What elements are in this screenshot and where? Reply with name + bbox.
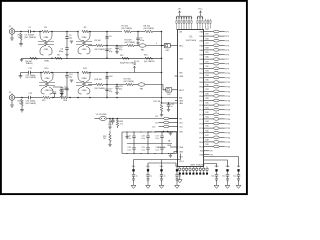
svg-text:OPA2: OPA2	[82, 36, 87, 39]
svg-text:PC3: PC3	[199, 119, 203, 121]
wire C5 to C6	[66, 38, 68, 47]
ground under R1	[19, 44, 23, 46]
resistor R46 47	[213, 131, 219, 134]
wire pin PA1 to R25	[204, 35, 214, 37]
wire grid left entry	[155, 131, 178, 133]
wire vertical filter leg row2	[106, 73, 108, 98]
svg-text:PA3: PA3	[200, 44, 203, 47]
wire rail to VDL pad	[133, 160, 135, 170]
svg-text:R27: R27	[206, 43, 209, 45]
resistor R8 NC TRACE	[145, 30, 153, 32]
node B5	[89, 72, 91, 74]
wire Y1 to U1 XTAL	[107, 118, 178, 120]
wire R32 to test point	[219, 67, 225, 69]
test pad VBL	[176, 169, 178, 171]
wire FB1 to CN1	[146, 45, 164, 47]
wire to C14	[66, 73, 68, 76]
wire R27 to test point	[219, 44, 225, 46]
svg-text:PB3: PB3	[199, 82, 203, 84]
capacitor C32 10uF	[215, 175, 218, 177]
node A2	[33, 31, 35, 33]
test pad VGL	[160, 169, 162, 171]
resistor R19	[43, 96, 50, 98]
svg-text:4.7u: 4.7u	[120, 124, 124, 126]
node bus row3	[161, 97, 163, 99]
node grid entry 1	[163, 131, 165, 133]
series resistor column right 3	[210, 19, 211, 29]
svg-text:PB1: PB1	[199, 73, 203, 75]
jumper CN2	[166, 88, 172, 93]
wire R26 to test point	[219, 40, 225, 42]
capacitor C15	[65, 88, 68, 90]
ground under C38	[175, 184, 180, 189]
resistor R21 10k	[160, 105, 162, 112]
bottom pin 6 of U1	[196, 167, 198, 175]
svg-text:MICR: MICR	[179, 90, 184, 92]
resistor R5 OPA	[82, 30, 89, 32]
wire R46 to test point	[219, 132, 225, 134]
wire bus to U1 VAG pin	[162, 102, 179, 104]
svg-text:0.1u: 0.1u	[155, 149, 159, 151]
wire pin PA0 to R24	[204, 31, 214, 33]
ground under bottom pins	[177, 178, 182, 183]
svg-text:R16 100: R16 100	[95, 79, 102, 81]
node bus r1	[161, 45, 163, 47]
svg-text:(NO TRACE): (NO TRACE)	[125, 41, 136, 44]
resistor R7 820 NC TRACE	[124, 30, 131, 32]
wire R41 to test point	[219, 109, 225, 111]
resistor R12 1k	[122, 57, 129, 59]
svg-text:(NO TRACE): (NO TRACE)	[26, 76, 37, 79]
wire VA to rail	[134, 71, 136, 73]
wire C38 to ground	[176, 180, 178, 184]
wire R34 to test point	[219, 77, 225, 79]
resistor R39 47	[213, 99, 219, 102]
wire C35 to C bars	[133, 176, 135, 178]
capacitor C16	[105, 77, 108, 79]
node C7n	[116, 97, 118, 99]
wire R31 to test point	[219, 63, 225, 65]
wire pin PC5 to R45	[204, 127, 214, 129]
wire J1 to C1	[15, 31, 29, 33]
svg-text:R30: R30	[206, 57, 209, 59]
wire U1 to C33 branch	[204, 160, 228, 167]
wire pin PD1 to R49	[204, 146, 214, 148]
wire C13 to ground	[61, 90, 63, 94]
wire C36 to C bars	[147, 176, 149, 178]
schematic border frame	[1, 1, 247, 194]
node A10	[106, 45, 108, 47]
bottom pin 2 of U1	[182, 167, 184, 175]
wire U1 to C32 branch	[204, 164, 217, 168]
wire to C26	[147, 132, 149, 136]
capacitor C36b small	[147, 179, 150, 180]
node C4n	[77, 97, 79, 99]
node grid bottom 4	[147, 153, 148, 154]
wire R21 to ground	[161, 112, 163, 115]
resistor R9 100 NC TRACE	[96, 44, 103, 46]
capacitor C37b small	[160, 179, 163, 180]
wire C25 to mid rail	[133, 138, 135, 144]
resistor R30 47	[213, 58, 219, 61]
node grid top 8	[171, 131, 172, 132]
connector J2 mic input	[9, 92, 15, 100]
wire C10 to ground	[116, 49, 118, 52]
wire grid to U1	[177, 146, 179, 148]
resistor R1 1k	[20, 33, 22, 40]
svg-text:OPA4: OPA4	[82, 89, 87, 92]
svg-text:820pF (NO TRACE): 820pF (NO TRACE)	[120, 62, 136, 65]
pull-up network column 5	[186, 16, 187, 30]
pull-up network column 8	[197, 16, 198, 30]
ground near C14	[70, 80, 73, 82]
svg-text:1k: 1k	[18, 37, 20, 39]
crystal Y1 24.576MHz	[99, 117, 106, 121]
op-amp stage U4 OPA3	[39, 73, 55, 95]
wire pull-up rail A	[177, 15, 192, 17]
svg-text:R9 100: R9 100	[95, 40, 101, 42]
ground under C33	[225, 184, 230, 189]
wire mid to C29	[147, 144, 149, 148]
svg-text:47p: 47p	[109, 51, 112, 53]
wire rail to VCL pad	[147, 163, 149, 169]
pin stub GND2	[175, 75, 179, 77]
wire mid to C30	[161, 144, 163, 148]
svg-text:0.1u: 0.1u	[141, 149, 145, 151]
wire C28 to bottom rail	[133, 149, 135, 153]
node A8	[106, 31, 108, 33]
capacitor C7 470pF	[137, 32, 139, 38]
resistor R36 47	[213, 85, 219, 88]
svg-text:R42: R42	[206, 112, 209, 114]
svg-text:(NO TRACE): (NO TRACE)	[122, 27, 133, 30]
svg-text:OPA1: OPA1	[44, 60, 49, 63]
resistor R17 820	[126, 83, 133, 85]
svg-text:MICL: MICL	[179, 46, 183, 48]
bottom pin 3 of U1	[186, 167, 188, 175]
wire pin PB2 to R34	[204, 77, 214, 79]
svg-text:VCL: VCL	[146, 166, 150, 168]
stub row2 to ground	[20, 73, 22, 76]
capacitor C6	[65, 48, 68, 50]
resistor R4 NC TRACE	[30, 57, 38, 59]
wire C36 to ground	[147, 180, 149, 184]
node A1	[20, 31, 22, 33]
svg-text:PC6: PC6	[199, 133, 203, 135]
node A5	[66, 31, 68, 33]
wire row3 to U1 pin	[162, 97, 179, 99]
svg-text:GND: GND	[179, 58, 184, 60]
svg-text:1u: 1u	[179, 175, 181, 177]
wire to C24	[112, 119, 114, 121]
test pad VDL	[132, 169, 134, 171]
svg-text:PA0: PA0	[200, 31, 203, 34]
wire R25 to test point	[219, 35, 225, 37]
resistor R31 47	[213, 62, 219, 65]
capacitor C24	[111, 120, 114, 122]
resistor R33 47	[213, 72, 219, 75]
capacitor C11 series	[29, 71, 31, 74]
node A6	[77, 31, 79, 33]
capacitor C5	[65, 37, 68, 39]
svg-text:R25: R25	[206, 34, 209, 36]
capacitor C10	[115, 47, 118, 49]
resistor R37 47	[213, 90, 219, 93]
wire C33 to C bars	[227, 176, 229, 178]
node A4	[51, 31, 53, 33]
bottom pin 8 of U1	[203, 167, 205, 175]
resistor R22 1M	[109, 134, 111, 142]
svg-text:PC5: PC5	[199, 128, 203, 130]
node A11	[116, 45, 118, 47]
wire U1 to C34 branch	[204, 157, 239, 168]
svg-text:FB1: FB1	[141, 50, 144, 52]
wire R19 to R20	[50, 97, 60, 99]
svg-text:XTO: XTO	[179, 123, 183, 125]
capacitor C26 0.1uF	[146, 136, 149, 138]
svg-text:(NO TRACE): (NO TRACE)	[144, 60, 155, 63]
wire pad to C34	[238, 171, 240, 174]
wire U4 out to C13	[53, 86, 62, 89]
wire R40 to test point	[219, 104, 225, 106]
wire pad to C36	[147, 171, 149, 174]
wire rail row1	[49, 31, 78, 33]
wire to ground at C31 row	[170, 132, 172, 133]
bottom pin 5 of U1	[192, 167, 194, 175]
resistor R18 1k	[21, 99, 23, 106]
wire R17 to FB2	[133, 84, 138, 86]
wire R39 to test point	[219, 100, 225, 102]
resistor R6 OPA	[55, 57, 62, 59]
svg-text:(NO TRACE): (NO TRACE)	[95, 87, 106, 90]
wire R29 to test point	[219, 54, 225, 56]
ground near C5	[70, 41, 73, 43]
wire C15 to row3 rail	[66, 90, 68, 98]
wire to C23	[168, 103, 170, 104]
ground under C35	[131, 184, 136, 189]
ground under J1	[10, 38, 14, 40]
wire pin PC7 to R47	[204, 136, 214, 138]
ground row2 input	[19, 76, 23, 78]
svg-text:R36: R36	[206, 84, 209, 86]
svg-text:PA2: PA2	[200, 40, 203, 43]
pin stub GND3	[175, 100, 178, 102]
wire R35 to test point	[219, 81, 225, 83]
connector J1 line input	[9, 26, 15, 34]
node B1	[40, 72, 42, 74]
svg-text:XTLO: XTLO	[179, 161, 184, 163]
resistor R45 47	[213, 127, 219, 130]
ground under R18	[20, 110, 24, 112]
svg-text:OPA1: OPA1	[44, 36, 49, 39]
node grid bottom 7	[168, 153, 169, 154]
svg-text:R48: R48	[206, 140, 209, 142]
svg-text:1k: 1k	[19, 103, 21, 105]
node D1	[109, 118, 111, 120]
svg-text:R49: R49	[206, 144, 209, 146]
svg-text:R26: R26	[206, 38, 209, 40]
pull-up network column 9	[199, 16, 200, 30]
wire grid to ground	[170, 154, 172, 156]
inductor L1 ferrite	[116, 120, 118, 127]
svg-text:R24: R24	[206, 29, 209, 31]
wire pin PA5 to R29	[204, 54, 214, 56]
resistor R43 47	[213, 118, 219, 121]
node A7	[89, 31, 91, 33]
wire R33 to test point	[219, 72, 225, 74]
capacitor C23 1uF	[167, 105, 170, 107]
wire mid to C28	[133, 144, 135, 148]
wire R8 to bus	[153, 31, 162, 33]
wire VCC to rail B	[200, 14, 202, 17]
wire C26 to mid rail	[147, 138, 149, 144]
wire rail 2 drop	[175, 163, 177, 166]
wire U5 output	[88, 84, 96, 86]
wire into R22	[109, 131, 111, 135]
svg-text:OPA3: OPA3	[45, 77, 50, 80]
wire R23 row	[170, 146, 177, 148]
svg-text:VBL: VBL	[175, 166, 179, 168]
wire decoupling mid rail	[127, 143, 172, 145]
svg-text:10p: 10p	[69, 76, 72, 78]
wire C34 to C bars	[238, 176, 240, 178]
svg-text:PA1: PA1	[200, 35, 203, 38]
wire CL3 left	[159, 126, 164, 128]
capacitor C8	[105, 37, 108, 39]
ground under C32	[214, 184, 219, 189]
wire decoupling top rail	[122, 131, 177, 133]
pull-up network column 3	[181, 16, 182, 30]
svg-text:OPA1: OPA1	[44, 48, 49, 51]
wire pin PA3 to R27	[204, 44, 214, 46]
node grid bottom 3	[140, 153, 141, 154]
wire R11 to FB1	[134, 45, 139, 47]
svg-text:(NO TRACE): (NO TRACE)	[95, 48, 106, 51]
resistor R28 47	[213, 49, 219, 52]
svg-text:PA4: PA4	[200, 49, 203, 52]
node D3	[117, 118, 119, 120]
wire to C5	[66, 32, 68, 37]
wire C33 to ground	[227, 180, 229, 184]
svg-text:PC7: PC7	[199, 137, 203, 139]
capacitor C21 above rail	[53, 92, 56, 94]
wire supply rail 1	[134, 159, 181, 161]
wire pin PC1 to R41	[204, 109, 214, 111]
svg-text:R40: R40	[206, 103, 209, 105]
node A3	[39, 31, 41, 33]
stub to ground lower rail	[21, 58, 23, 59]
wire decoupling right edge	[176, 132, 178, 154]
svg-text:OPA3: OPA3	[45, 89, 50, 92]
wire row2 rail start	[21, 72, 29, 74]
wire pin PB4 to R36	[204, 86, 214, 88]
svg-text:R44: R44	[206, 121, 209, 123]
svg-text:C16: C16	[109, 76, 112, 78]
svg-text:R37: R37	[206, 89, 209, 91]
ground under C23	[167, 109, 170, 111]
svg-text:R29: R29	[206, 52, 209, 54]
svg-text:SGTL5000: SGTL5000	[186, 40, 197, 42]
wire FB2 to CN2	[145, 85, 166, 90]
svg-text:PA5: PA5	[200, 54, 203, 57]
wire C37 to C bars	[161, 176, 163, 178]
svg-text:TRACE): TRACE)	[26, 62, 33, 65]
wire C1 to R3	[30, 31, 42, 33]
ground under C18	[115, 92, 118, 94]
svg-text:10u: 10u	[233, 175, 236, 177]
series resistor column right 2	[207, 19, 208, 29]
op-amp stage U3 OPA2	[76, 32, 92, 55]
svg-text:CL2: CL2	[155, 123, 158, 125]
svg-text:CN1: CN1	[165, 50, 169, 52]
capacitor C37 1uF	[160, 175, 163, 177]
capacitor C28 0.1uF	[132, 148, 135, 150]
svg-text:PB2: PB2	[199, 78, 203, 80]
svg-text:C8: C8	[109, 36, 111, 38]
resistor R42 47	[213, 113, 219, 116]
svg-text:R39: R39	[206, 98, 209, 100]
node grid bottom 8	[171, 153, 172, 154]
node grid entry 2	[167, 131, 169, 133]
wire pin PB5 to R37	[204, 90, 214, 92]
test pad VDA	[226, 169, 228, 171]
jumper CN1	[164, 43, 170, 48]
pull-up network column 7	[191, 16, 192, 30]
wire pin PC0 to R40	[204, 104, 214, 106]
wire R47 to test point	[219, 136, 225, 138]
node bus row1 lower	[161, 58, 163, 60]
capacitor C32b small	[215, 179, 218, 180]
node C2n	[52, 97, 54, 99]
wire FB4 right	[169, 118, 178, 120]
svg-text:1u: 1u	[150, 175, 152, 177]
svg-text:XTLI: XTLI	[179, 157, 183, 159]
wire rail 1 up	[180, 154, 182, 160]
wire R24 to test point	[219, 31, 225, 33]
wire pin PB1 to R33	[204, 72, 214, 74]
wire pad to C35	[133, 171, 135, 174]
svg-text:R47: R47	[206, 135, 209, 137]
wire to ground grid	[126, 132, 128, 137]
test pad VDI	[237, 169, 239, 171]
wire C24 down	[112, 122, 114, 125]
resistor R14	[43, 71, 50, 73]
capacitor C36 1uF	[146, 175, 149, 177]
svg-text:R41: R41	[206, 107, 209, 109]
wire pin PB3 to R35	[204, 81, 214, 83]
capacitor C29 0.1uF	[146, 148, 149, 150]
capacitor C35 1uF	[132, 175, 135, 177]
wire to C10	[116, 46, 118, 47]
wire R36 to test point	[219, 86, 225, 88]
wire bottom pin 1 to ground	[179, 175, 181, 179]
ferrite bead FB5	[164, 121, 169, 124]
node C6n	[106, 97, 108, 99]
svg-text:PC1: PC1	[199, 110, 203, 112]
ground under C34	[236, 184, 241, 189]
wire vertical filter leg	[106, 32, 108, 59]
capacitor C17	[105, 89, 108, 91]
svg-text:GND: GND	[179, 76, 184, 78]
resistor R15 OPA	[82, 71, 89, 73]
capacitor C1 series	[29, 30, 31, 33]
svg-text:0.1u: 0.1u	[141, 138, 145, 140]
wire R49 to test point	[219, 146, 225, 148]
node B2	[51, 72, 53, 74]
capacitor C19 series	[29, 96, 31, 99]
wire FB6 right	[169, 126, 178, 128]
IC U1 SGTL5000 codec	[178, 30, 204, 167]
